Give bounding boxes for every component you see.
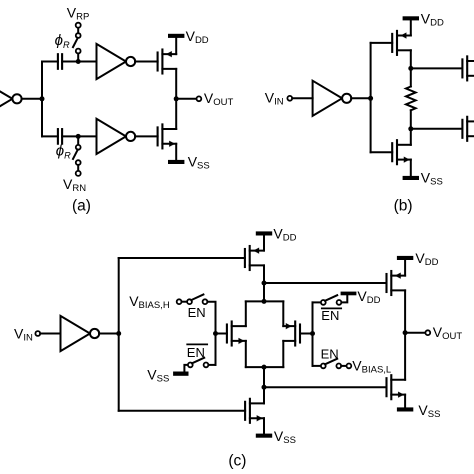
- wire GL to switch S5: [313, 301, 321, 303]
- transistor Q1 (right, partial): [462, 56, 474, 80]
- wire M10 source to VSS: [404, 395, 406, 408]
- svg-text:VRP: VRP: [67, 5, 90, 23]
- label (c): [228, 452, 246, 469]
- wire node RT to Q1 gate: [411, 67, 462, 69]
- svg-text:EN: EN: [188, 305, 206, 320]
- svg-text:(c): (c): [228, 452, 246, 469]
- transistor M8 (TG PMOS right): [283, 322, 300, 346]
- wire M3 source to VDD: [410, 20, 412, 35]
- node GL: [310, 331, 315, 336]
- wire node GL vertical: [312, 302, 314, 366]
- wire VIN to inverter U5: [40, 333, 60, 335]
- wire TG bottom rail: [246, 366, 283, 368]
- label (b): [394, 197, 413, 214]
- node G_P: [262, 281, 267, 286]
- wire node RB to Q2 gate: [411, 128, 462, 130]
- terminal VIN_B: [287, 96, 292, 101]
- wire U3 to M2 gate: [135, 135, 158, 137]
- label V_BIAS,H: [129, 293, 170, 311]
- switch S3 (EN): [187, 295, 207, 305]
- svg-text:VOUT: VOUT: [204, 90, 234, 108]
- transistor M6 (NMOS bottom): [245, 399, 264, 423]
- label V_SS (b): [421, 170, 443, 188]
- capacitor C1: [58, 54, 62, 69]
- label V_RN: [63, 176, 86, 194]
- wire M9 source to VDD: [404, 260, 406, 276]
- label EN bar (left): [187, 344, 207, 360]
- wire C2 to inverter U3: [62, 135, 96, 137]
- transistor M9 (PMOS out): [387, 271, 406, 295]
- label phi_R (top): [55, 32, 70, 50]
- resistor R1: [406, 87, 416, 111]
- label V_SS (left switch): [147, 367, 169, 385]
- terminal VBIASH: [177, 299, 182, 304]
- wire M4 source to VSS: [410, 160, 412, 176]
- svg-text:VBIAS,H: VBIAS,H: [129, 293, 170, 311]
- svg-text:EN: EN: [321, 308, 339, 323]
- power VDD (b): [403, 16, 419, 20]
- svg-text:VSS: VSS: [421, 170, 443, 188]
- svg-text:ϕR: ϕR: [56, 143, 71, 161]
- svg-text:VSS: VSS: [188, 154, 210, 172]
- node X2 (bottom branch): [76, 134, 81, 139]
- terminal VRP: [76, 23, 81, 28]
- wire node NB vertical: [370, 43, 372, 152]
- wire M2 source to VSS: [175, 144, 177, 160]
- label EN (right bottom): [321, 346, 339, 361]
- wire node X2 to switch S2: [77, 136, 79, 145]
- wire TG left upper: [245, 301, 247, 326]
- svg-text:VSS: VSS: [274, 428, 296, 446]
- transistor M3 (PMOS): [392, 31, 411, 55]
- switch S1 (phi_R): [73, 33, 81, 53]
- transistor M2 (NMOS): [158, 124, 177, 148]
- wire to capacitor C1: [42, 61, 58, 63]
- label EN bar (right): [321, 308, 341, 323]
- label V_IN (c): [14, 325, 33, 343]
- inverter U5: [61, 316, 100, 351]
- power VSS (left switch): [173, 372, 188, 376]
- wire node NC vertical: [118, 258, 120, 411]
- node TG_bot: [262, 365, 267, 370]
- svg-text:VOUT: VOUT: [433, 324, 463, 342]
- wire to VOUT terminal: [176, 98, 196, 100]
- wire M5 source to VDD: [263, 236, 265, 251]
- terminal VBIASL: [347, 364, 352, 369]
- transistor M7 (TG NMOS left): [227, 322, 246, 346]
- wire S4 right: [208, 364, 215, 366]
- svg-text:(a): (a): [72, 197, 91, 214]
- svg-text:VDD: VDD: [273, 225, 296, 243]
- label V_DD (a): [186, 28, 209, 46]
- wire to capacitor C2: [42, 135, 58, 137]
- terminal VRN: [76, 171, 81, 176]
- switch S6 (EN right): [321, 359, 341, 369]
- wire resistor to node RB: [410, 110, 412, 145]
- switch S4 (EN bar): [188, 358, 209, 368]
- transistor M4 (NMOS): [392, 140, 411, 164]
- wire S6 to VBIASL terminal: [341, 365, 346, 367]
- power VDD (a): [168, 34, 184, 38]
- wire to M4 gate: [371, 151, 393, 153]
- svg-text:(b): (b): [394, 197, 413, 214]
- wire M8 gate to node GL: [300, 333, 313, 335]
- wire node IN_A vertical split: [41, 62, 43, 137]
- switch S5 (EN bar right): [321, 295, 342, 305]
- power VSS (a): [168, 160, 184, 164]
- transistor Q2 (right, partial): [462, 117, 474, 141]
- power VSS (b): [403, 176, 419, 180]
- power VSS (c out): [397, 407, 413, 411]
- label V_SS (a): [188, 154, 210, 172]
- svg-text:VBIAS,L: VBIAS,L: [352, 357, 391, 375]
- inverter U2 (top): [97, 44, 136, 79]
- power VSS (c bottom): [256, 434, 272, 438]
- wire TG right lower: [282, 341, 284, 367]
- inverter U4: [313, 81, 352, 116]
- power VDD (c out): [397, 256, 413, 260]
- svg-text:VDD: VDD: [415, 250, 438, 268]
- label phi_R (bottom): [56, 143, 71, 161]
- wire node GH to M7 gate: [216, 333, 227, 335]
- transistor M5 (PMOS top): [245, 246, 264, 270]
- svg-text:VSS: VSS: [418, 402, 440, 420]
- wire node X1 to switch S1: [77, 53, 79, 61]
- wire GL to switch S6: [313, 365, 321, 367]
- wire to VOUT terminal (c): [405, 332, 425, 334]
- label V_SS (c out): [418, 402, 440, 420]
- wire U1 output to node IN_A: [22, 98, 42, 100]
- wire S3 to node GH: [207, 302, 215, 365]
- node VOUT_A: [174, 96, 179, 101]
- svg-text:VDD: VDD: [186, 28, 209, 46]
- svg-text:ϕR: ϕR: [55, 32, 70, 50]
- wire M9 drain to M10 drain: [404, 290, 406, 379]
- wire VSS to switch S4: [184, 365, 188, 372]
- label V_RP: [67, 5, 90, 23]
- wire node G_N to M10 gate: [264, 386, 387, 388]
- svg-text:VRN: VRN: [63, 176, 86, 194]
- node G_N: [262, 385, 267, 390]
- label V_SS (c bottom): [274, 428, 296, 446]
- wire node G_P to M9 gate: [264, 282, 387, 284]
- inverter U3 (bottom): [97, 119, 136, 154]
- wire TG top rail: [246, 300, 283, 302]
- wire M5 drain down: [263, 265, 265, 301]
- transistor M10 (NMOS out): [387, 375, 406, 399]
- wire to M3 gate: [371, 42, 393, 44]
- wire switch S1 to VRP terminal: [77, 28, 79, 34]
- transistor M1 (PMOS): [158, 50, 177, 74]
- wire VBIASH to switch S3: [182, 301, 188, 303]
- node RB: [408, 126, 413, 131]
- node TG_top: [262, 299, 267, 304]
- wire TG left lower: [245, 341, 247, 367]
- svg-text:VDD: VDD: [357, 288, 380, 306]
- wire U4 to node NB: [351, 97, 370, 99]
- node GH: [213, 331, 218, 336]
- wire U5 to node NC: [99, 333, 119, 335]
- wire TG right upper: [282, 301, 284, 326]
- label V_DD (c out): [415, 250, 438, 268]
- svg-text:VIN: VIN: [14, 325, 33, 343]
- wire M1 drain to M2 drain: [175, 69, 177, 129]
- wire U2 to M1 gate: [135, 61, 158, 63]
- wire TG_bot down: [263, 367, 265, 403]
- svg-text:VDD: VDD: [421, 10, 444, 28]
- node NB: [368, 96, 373, 101]
- node IN_A: [40, 96, 45, 101]
- svg-text:VIN: VIN: [265, 90, 284, 108]
- wire to M6 gate: [119, 410, 245, 412]
- node X1 (top branch): [76, 59, 81, 64]
- wire C1 to inverter U2: [62, 61, 96, 63]
- svg-text:EN: EN: [321, 346, 339, 361]
- wire to M5 gate: [119, 257, 245, 259]
- label V_OUT (c): [433, 324, 463, 342]
- terminal VIN_C: [35, 331, 40, 336]
- label (a): [72, 197, 91, 214]
- node VOUT_C: [403, 330, 408, 335]
- power VDD (right switch): [341, 292, 357, 296]
- wire M3 drain to resistor: [410, 50, 412, 86]
- capacitor C2: [58, 129, 62, 144]
- terminal VOUT_C: [425, 330, 430, 335]
- wire S5 to VDD: [341, 295, 347, 302]
- input inverter U1 (partially off-canvas): [0, 81, 22, 116]
- label V_BIAS,L: [352, 357, 391, 375]
- switch S2 (phi_R): [73, 145, 81, 165]
- node NC: [116, 331, 121, 336]
- wire M1 source to VDD: [175, 38, 177, 54]
- label V_IN (b): [265, 90, 284, 108]
- wire switch S2 to VRN terminal: [77, 165, 79, 171]
- label V_DD (c top): [273, 225, 296, 243]
- power VDD (c top): [256, 231, 272, 235]
- node RT: [408, 66, 413, 71]
- wire VIN to inverter U4: [292, 97, 312, 99]
- label V_DD (b): [421, 10, 444, 28]
- terminal VOUT_A: [197, 96, 202, 101]
- label V_DD (right switch): [357, 288, 380, 306]
- wire M6 source to VSS: [263, 418, 265, 433]
- label EN (left top): [188, 305, 206, 320]
- svg-text:VSS: VSS: [147, 367, 169, 385]
- label V_OUT (a): [204, 90, 234, 108]
